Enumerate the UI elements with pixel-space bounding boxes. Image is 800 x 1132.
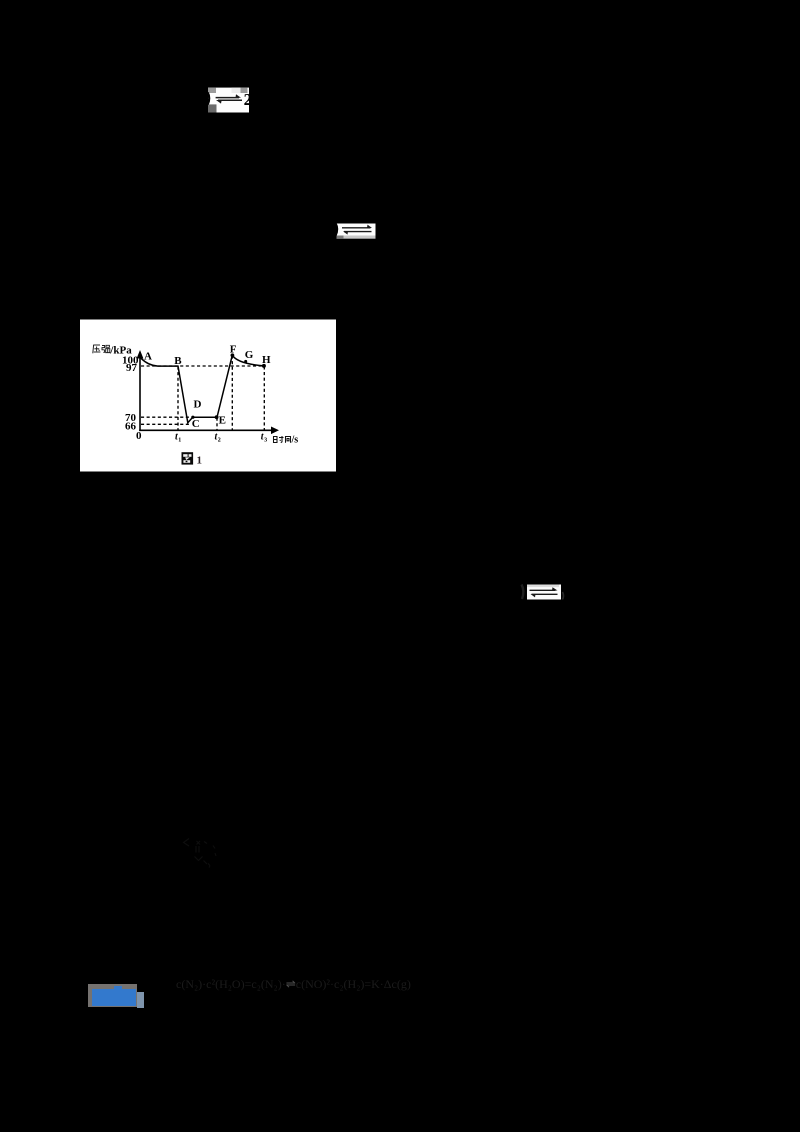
- svg-text:2: 2: [218, 438, 221, 444]
- svg-text:A: A: [144, 351, 152, 363]
- svg-text:1: 1: [197, 454, 203, 466]
- svg-text:D: D: [194, 398, 202, 410]
- svg-text:F: F: [230, 343, 237, 355]
- svg-text:G: G: [245, 349, 254, 361]
- svg-text:/kPa: /kPa: [109, 344, 132, 356]
- svg-text:H: H: [262, 354, 271, 366]
- svg-text:E: E: [219, 414, 226, 426]
- svg-text:/s: /s: [291, 435, 299, 446]
- svg-text:2: 2: [244, 90, 251, 109]
- svg-text:1: 1: [178, 438, 181, 444]
- svg-text:97: 97: [126, 362, 138, 374]
- svg-text:C: C: [192, 418, 200, 430]
- svg-text:B: B: [174, 355, 182, 367]
- svg-text:66: 66: [125, 421, 137, 433]
- svg-text:3: 3: [264, 438, 267, 444]
- svg-text:0: 0: [136, 430, 142, 442]
